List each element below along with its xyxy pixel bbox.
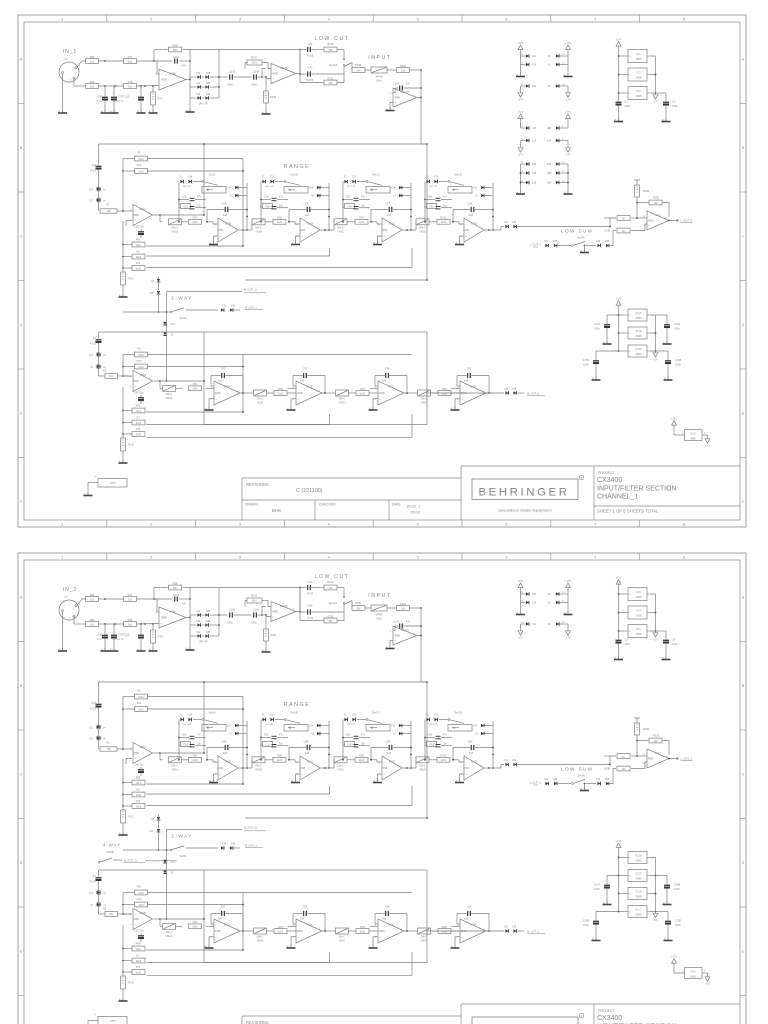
ground — [595, 937, 597, 940]
svg-text:X2B: X2B — [553, 241, 558, 243]
svg-text:2k43: 2k43 — [136, 971, 142, 974]
svg-text:R: R — [581, 476, 583, 480]
potentiometer VR2D — [418, 390, 431, 396]
svg-text:100n: 100n — [625, 642, 631, 646]
wire — [619, 74, 625, 76]
resistor R77 — [124, 597, 137, 602]
ground — [390, 102, 393, 104]
stage rail right — [328, 183, 330, 230]
wire — [251, 760, 253, 768]
svg-text:R225: R225 — [270, 633, 277, 637]
wire — [619, 893, 625, 895]
wire — [636, 197, 638, 218]
svg-text:X1B: X1B — [532, 173, 537, 175]
svg-text:X14: X14 — [532, 624, 537, 626]
svg-text:2k43: 2k43 — [138, 366, 144, 369]
svg-text:VR1A: VR1A — [172, 230, 179, 233]
svg-text:4580: 4580 — [690, 975, 696, 978]
svg-text:CHECKED: CHECKED — [319, 503, 336, 507]
resistor R54 — [356, 391, 369, 396]
wire — [365, 69, 371, 71]
ground — [460, 773, 465, 775]
chain feed rail — [203, 144, 205, 215]
svg-text:X14: X14 — [188, 177, 193, 179]
-17V arrows group 1 — [520, 624, 522, 629]
-17V supply arrow — [655, 631, 657, 633]
svg-text:X2B: X2B — [206, 73, 211, 75]
svg-text:C8P: C8P — [468, 741, 473, 744]
svg-text:+17V: +17V — [616, 297, 622, 300]
svg-text:8: 8 — [629, 594, 631, 596]
svg-text:150n: 150n — [227, 622, 233, 625]
wire — [415, 760, 417, 768]
ground — [87, 492, 89, 495]
svg-text:X14: X14 — [227, 726, 232, 728]
svg-text:C65: C65 — [429, 743, 434, 746]
feedback wire — [663, 203, 670, 218]
svg-text:50k-C: 50k-C — [257, 936, 264, 939]
svg-text:R54: R54 — [360, 925, 365, 929]
svg-text:C23: C23 — [308, 42, 313, 46]
svg-text:500-1: 500-1 — [252, 63, 259, 65]
op-amp output wire — [296, 611, 300, 613]
svg-text:X2B: X2B — [547, 141, 552, 143]
svg-text:IN_1: IN_1 — [63, 49, 77, 55]
svg-text:E: E — [20, 950, 23, 954]
sheet 2 outer border frame — [18, 553, 746, 1024]
resistor R47 — [189, 757, 202, 762]
wire — [631, 224, 647, 231]
svg-text:X1: X1 — [475, 734, 479, 736]
svg-text:100n: 100n — [674, 887, 680, 891]
svg-text:C97C113: C97C113 — [119, 95, 130, 99]
sheet 1 outer border frame — [18, 15, 746, 527]
svg-text:2068: 2068 — [215, 929, 221, 933]
ground — [122, 294, 124, 297]
svg-text:50k-C: 50k-C — [339, 398, 346, 401]
wire — [265, 221, 273, 223]
svg-text:6n8: 6n8 — [300, 917, 305, 920]
-17V arrow — [702, 972, 708, 974]
svg-text:-: - — [273, 605, 274, 609]
diode X19 row 3 — [190, 635, 197, 637]
svg-text:+17V: +17V — [518, 42, 524, 45]
svg-text:50k-C: 50k-C — [419, 764, 426, 767]
svg-text:2k43: 2k43 — [136, 256, 142, 259]
svg-text:R155: R155 — [653, 735, 660, 738]
svg-text:14P 14P: 14P 14P — [347, 186, 356, 188]
svg-text:+: + — [465, 234, 467, 238]
svg-text:X1: X1 — [311, 734, 315, 736]
svg-text:14P 14P: 14P 14P — [429, 724, 438, 726]
output wire — [484, 767, 498, 769]
ground — [104, 648, 106, 651]
svg-text:6n8: 6n8 — [469, 214, 474, 217]
svg-text:X15: X15 — [512, 760, 517, 762]
op-amp IC2C — [378, 381, 404, 405]
svg-text:B: B — [742, 146, 745, 150]
svg-text:-: - — [216, 385, 217, 389]
svg-text:R13: R13 — [137, 702, 142, 705]
svg-text:X1: X1 — [180, 177, 184, 179]
IC power box IC27 — [628, 309, 647, 321]
svg-text:P15: P15 — [136, 428, 141, 431]
ground — [390, 640, 393, 642]
svg-text:15n: 15n — [361, 204, 366, 207]
svg-text:VR9A: VR9A — [376, 614, 383, 617]
svg-text:3: 3 — [239, 554, 241, 559]
op-amp IC1B — [218, 756, 238, 780]
svg-text:50k-C: 50k-C — [337, 226, 344, 229]
svg-text:+: + — [301, 234, 303, 238]
svg-text:47n: 47n — [182, 65, 187, 68]
svg-text:+: + — [379, 397, 381, 401]
svg-text:100n: 100n — [674, 326, 680, 330]
output wire — [404, 930, 411, 932]
svg-text:B: B — [742, 684, 745, 688]
-17V supply arrow — [655, 912, 657, 914]
diode X19 row 3 — [190, 97, 197, 99]
svg-text:X1: X1 — [90, 905, 94, 907]
ground — [122, 460, 124, 463]
svg-text:R55: R55 — [442, 387, 447, 391]
svg-text:-17V: -17V — [705, 444, 710, 447]
wire — [619, 593, 625, 595]
svg-text:X14: X14 — [89, 355, 94, 357]
svg-text:X15: X15 — [512, 222, 517, 224]
op-amp output wire — [186, 617, 190, 619]
capacitor C65 15n — [263, 742, 273, 747]
wire — [370, 387, 379, 389]
svg-text:C92: C92 — [221, 368, 226, 371]
svg-text:X14: X14 — [434, 715, 439, 717]
ladder rail — [122, 387, 124, 438]
svg-text:R221: R221 — [400, 602, 407, 606]
XLR ground pin wire — [62, 74, 64, 113]
ground — [104, 110, 106, 113]
svg-text:X1: X1 — [548, 594, 552, 596]
svg-text:E: E — [742, 411, 745, 415]
svg-text:X1: X1 — [548, 624, 552, 626]
svg-text:C40: C40 — [308, 65, 313, 69]
svg-text:120A: 120A — [140, 207, 146, 211]
svg-text:X1: X1 — [180, 715, 184, 717]
svg-text:X2B: X2B — [231, 844, 236, 846]
svg-text:R197: R197 — [604, 755, 610, 758]
svg-text:C66: C66 — [264, 196, 269, 199]
resistor R54 — [356, 929, 369, 934]
svg-text:C161: C161 — [393, 619, 400, 623]
border column reference ticks and numbers — [106, 553, 108, 560]
svg-text:2068: 2068 — [379, 929, 385, 933]
resistor R86 — [86, 597, 99, 602]
svg-text:X21: X21 — [89, 190, 94, 192]
wire — [619, 612, 625, 614]
branch wire — [299, 588, 301, 613]
svg-text:R240: R240 — [327, 580, 334, 584]
resistor R16B vertical — [634, 717, 640, 719]
svg-text:-: - — [462, 923, 463, 927]
svg-text:-: - — [273, 67, 274, 71]
svg-text:+17V: +17V — [565, 42, 571, 45]
stage rail left — [260, 182, 262, 222]
output wire — [240, 392, 247, 394]
IC power box IC8 — [628, 588, 647, 601]
svg-text:R155: R155 — [653, 197, 660, 200]
output terminal L_OUT_2 — [669, 758, 674, 760]
svg-text:SHEET 1 OF 5 SHEETS TOTAL: SHEET 1 OF 5 SHEETS TOTAL — [597, 509, 659, 514]
diode X1 below — [163, 332, 167, 335]
svg-text:4580: 4580 — [394, 634, 400, 638]
svg-text:C66: C66 — [428, 196, 433, 199]
svg-text:+: + — [160, 621, 162, 625]
svg-text:C8P: C8P — [468, 203, 473, 206]
svg-text:50k-C: 50k-C — [255, 226, 262, 229]
svg-text:2068: 2068 — [379, 391, 385, 395]
svg-text:R77: R77 — [128, 55, 133, 59]
svg-text:Sw3A: Sw3A — [577, 774, 584, 778]
svg-text:R78: R78 — [128, 618, 133, 622]
svg-text:IC10: IC10 — [690, 970, 696, 973]
IC power box IC1 — [628, 50, 647, 63]
ground — [62, 110, 64, 113]
potentiometer VR1D — [416, 219, 429, 225]
output terminal L_OUT_1 — [669, 220, 674, 222]
wire — [126, 220, 132, 222]
svg-text:M_OUT_1+: M_OUT_1+ — [244, 287, 258, 291]
svg-text:C3: C3 — [625, 638, 629, 642]
svg-text:C94: C94 — [385, 368, 390, 371]
svg-text:R86: R86 — [90, 593, 95, 597]
svg-text:M_OUT_1+: M_OUT_1+ — [124, 858, 138, 862]
svg-text:LOW CUT: LOW CUT — [314, 36, 349, 42]
svg-text:1k2: 1k2 — [90, 623, 95, 626]
svg-text:C66: C66 — [264, 734, 269, 737]
svg-text:C66: C66 — [182, 196, 187, 199]
svg-text:IN_2: IN_2 — [63, 587, 77, 593]
wire — [610, 231, 616, 246]
left supply bus — [618, 49, 620, 94]
svg-text:-: - — [384, 222, 385, 226]
svg-text:IC29: IC29 — [636, 853, 642, 857]
svg-text:47/25: 47/25 — [307, 617, 314, 620]
op-amp IC27B — [271, 602, 296, 622]
svg-text:2k43: 2k43 — [136, 805, 142, 808]
wire — [73, 79, 75, 87]
svg-text:+: + — [648, 761, 650, 765]
wire — [451, 392, 460, 394]
svg-text:6: 6 — [505, 521, 507, 526]
resistor R53 — [274, 391, 287, 396]
svg-text:50k-C: 50k-C — [171, 226, 178, 229]
svg-text:C66: C66 — [428, 734, 433, 737]
svg-text:1VP8: 1VP8 — [110, 482, 117, 485]
svg-text:8: 8 — [629, 875, 631, 877]
svg-text:6n8: 6n8 — [300, 379, 305, 382]
svg-text:VR2D: VR2D — [421, 402, 428, 405]
ground — [291, 936, 296, 938]
svg-text:Specialized Studio Equipment: Specialized Studio Equipment — [498, 508, 552, 513]
svg-text:IC2A: IC2A — [224, 922, 230, 926]
svg-text:VR2A: VR2A — [166, 397, 173, 400]
ladder rail — [122, 221, 124, 272]
ground — [606, 901, 608, 904]
output diode X11 — [426, 392, 504, 394]
svg-text:R1: R1 — [106, 204, 110, 207]
svg-text:IC19: IC19 — [636, 329, 642, 333]
wire — [636, 735, 638, 756]
svg-text:R86: R86 — [90, 55, 95, 59]
wire — [234, 76, 252, 78]
wire — [619, 911, 625, 913]
svg-text:CHANNEL_1: CHANNEL_1 — [597, 494, 638, 501]
op-amp IC9B — [159, 607, 186, 628]
resistor R78 — [124, 622, 137, 627]
buffer op-amp IC8A — [133, 743, 153, 764]
wire — [619, 630, 625, 632]
svg-text:-: - — [302, 760, 303, 764]
BEHRINGER logo box — [472, 1017, 578, 1024]
svg-text:VR9A: VR9A — [376, 76, 383, 79]
svg-text:2068: 2068 — [636, 913, 642, 917]
svg-text:150n: 150n — [251, 84, 257, 87]
svg-text:R251: R251 — [327, 76, 334, 80]
svg-text:R78: R78 — [128, 80, 133, 84]
svg-text:2k43: 2k43 — [277, 759, 283, 762]
svg-text:Sw9B: Sw9B — [106, 850, 113, 854]
op-amp IC1B — [218, 218, 238, 242]
resistor vertical — [121, 810, 126, 823]
capacitor C65 15n — [263, 204, 273, 209]
svg-text:2: 2 — [150, 521, 152, 526]
svg-text:6n8: 6n8 — [305, 214, 310, 217]
ground — [214, 235, 219, 237]
svg-text:100n: 100n — [672, 642, 678, 646]
svg-text:X1B: X1B — [532, 164, 537, 166]
svg-text:10k-1: 10k-1 — [136, 948, 143, 951]
svg-text:X5: X5 — [151, 819, 155, 821]
svg-text:4: 4 — [704, 971, 706, 973]
svg-text:M_OUT_2: M_OUT_2 — [527, 930, 540, 934]
potentiometer VR1D — [416, 757, 429, 763]
svg-text:-: - — [220, 760, 221, 764]
op-amp IC17D — [647, 749, 669, 768]
svg-text:C93: C93 — [303, 906, 308, 909]
wire — [387, 69, 397, 71]
resistor R225 vertical — [262, 614, 266, 616]
svg-text:R197: R197 — [604, 217, 610, 220]
-17V arrows group 2 — [520, 141, 522, 147]
svg-text:X14: X14 — [171, 862, 176, 864]
svg-text:M_OUT_1: M_OUT_1 — [527, 392, 540, 396]
svg-text:INPUT: INPUT — [368, 55, 392, 61]
svg-text:50k-C: 50k-C — [171, 764, 178, 767]
svg-text:4580: 4580 — [394, 96, 400, 100]
buffer output wire — [154, 380, 161, 382]
svg-text:R47: R47 — [193, 216, 198, 220]
svg-text:6: 6 — [130, 386, 132, 388]
svg-text:4: 4 — [328, 554, 331, 559]
svg-text:R49: R49 — [359, 216, 364, 220]
svg-text:C65: C65 — [265, 743, 270, 746]
svg-text:VR2C: VR2C — [339, 940, 346, 943]
svg-text:2: 2 — [150, 16, 152, 21]
svg-text:4580: 4580 — [636, 859, 642, 863]
svg-text:X15: X15 — [512, 389, 517, 391]
capacitor C179 — [607, 314, 619, 316]
svg-text:Sw1B: Sw1B — [290, 710, 297, 714]
svg-text:R1A: R1A — [137, 360, 142, 363]
svg-text:-: - — [135, 912, 136, 916]
svg-text:X14: X14 — [149, 293, 154, 295]
wire — [369, 392, 378, 394]
svg-text:R8: R8 — [137, 348, 141, 351]
svg-text:IC3: IC3 — [636, 627, 641, 631]
svg-text:50k-C: 50k-C — [337, 764, 344, 767]
svg-text:100n: 100n — [672, 104, 678, 108]
svg-text:M_OUT_2: M_OUT_2 — [245, 843, 258, 847]
wire — [410, 607, 422, 609]
svg-text:5: 5 — [417, 16, 419, 21]
svg-text:C8P: C8P — [304, 203, 309, 206]
svg-text:47n: 47n — [443, 734, 448, 737]
svg-text:+: + — [160, 83, 162, 87]
svg-text:-17V: -17V — [518, 636, 523, 639]
svg-text:RANGE: RANGE — [284, 164, 310, 170]
svg-text:Sw1B: Sw1B — [290, 172, 297, 176]
svg-text:X18: X18 — [222, 306, 227, 308]
wire — [219, 587, 307, 589]
op-amp IC2B — [296, 919, 322, 943]
diode X19 row 2 — [190, 86, 197, 88]
output wire — [238, 767, 252, 769]
svg-text:47/25: 47/25 — [307, 79, 314, 82]
wire — [429, 221, 437, 223]
svg-text:X15: X15 — [512, 927, 517, 929]
op-amp IC27B plus input wire — [266, 616, 271, 618]
capacitor C17A — [607, 875, 619, 877]
switch box — [448, 187, 472, 194]
svg-text:X1: X1 — [262, 715, 266, 717]
svg-text:C86 20u: C86 20u — [134, 226, 144, 229]
svg-text:150n: 150n — [251, 622, 257, 625]
svg-text:13: 13 — [642, 216, 645, 218]
IC power box IC17 — [628, 906, 647, 918]
svg-text:Sw1C: Sw1C — [372, 172, 379, 176]
wire — [387, 607, 397, 609]
wire — [251, 222, 253, 230]
switch box — [448, 725, 472, 732]
svg-text:1k2: 1k2 — [90, 60, 95, 63]
svg-text:4.7u 4.7u: 4.7u 4.7u — [113, 638, 124, 641]
svg-text:2k43: 2k43 — [441, 221, 447, 224]
wire — [452, 221, 459, 223]
svg-text:R410: R410 — [440, 216, 447, 220]
potentiometer VR1B — [252, 757, 265, 763]
svg-text:R8: R8 — [137, 886, 141, 889]
wire — [234, 614, 252, 616]
svg-text:2: 2 — [211, 937, 213, 939]
svg-text:100n: 100n — [625, 104, 631, 108]
svg-text:2k43: 2k43 — [277, 221, 283, 224]
-17V supply arrow — [655, 93, 657, 95]
svg-text:C15B: C15B — [583, 919, 590, 923]
svg-text:IC1D: IC1D — [471, 759, 477, 763]
resistor R52 — [189, 924, 202, 929]
svg-text:C98: C98 — [97, 95, 102, 99]
svg-text:+: + — [648, 223, 650, 227]
output wire — [486, 392, 493, 394]
